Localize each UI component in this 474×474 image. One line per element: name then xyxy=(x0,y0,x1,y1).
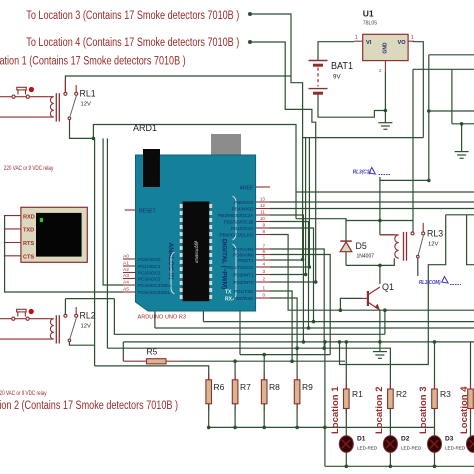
svg-text:CTS: CTS xyxy=(23,254,34,260)
svg-text:GND: GND xyxy=(383,42,389,54)
LED D1 xyxy=(339,436,378,453)
wire: Q1 emitter to ground xyxy=(379,310,381,352)
wire: RL2 row334 xyxy=(114,299,385,335)
svg-text:D3: D3 xyxy=(445,436,454,443)
wire: pin8 row310 xyxy=(270,235,474,311)
pushbutton 2 xyxy=(0,309,48,320)
ground: right side xyxy=(455,152,469,159)
wire: RL2 arm bottom xyxy=(69,342,94,346)
wire: h192 rail xyxy=(296,191,474,193)
wire: RL3 arm to COM xyxy=(417,258,419,276)
svg-text:78L05: 78L05 xyxy=(363,21,378,27)
svg-text:RL3: RL3 xyxy=(427,229,443,239)
svg-text:7: 7 xyxy=(262,244,265,249)
relay RL1 xyxy=(0,80,96,122)
wire: right rail C with ground xyxy=(451,69,453,124)
svg-text:1: 1 xyxy=(355,35,358,41)
svg-text:PB4/MISO: PB4/MISO xyxy=(232,207,254,212)
wire: Q1 base feed xyxy=(340,298,362,310)
svg-text:TXD: TXD xyxy=(23,228,34,234)
wire: A4 feeder xyxy=(103,138,123,285)
wire: RL3(C1) terminal drop xyxy=(379,177,381,235)
svg-text:PB1/OC1A: PB1/OC1A xyxy=(231,226,254,231)
svg-text:6: 6 xyxy=(262,249,265,254)
svg-text:Location 2: Location 2 xyxy=(374,386,385,434)
arduino right pin leads + numbers xyxy=(256,197,270,299)
LED D4 (partial) xyxy=(467,436,474,453)
wire: r9 row to R6 xyxy=(95,366,209,380)
wire: hanger v305 to PD3 xyxy=(305,138,307,275)
svg-text:A1: A1 xyxy=(123,261,129,267)
svg-text:ARD1: ARD1 xyxy=(133,123,157,133)
svg-text:PB0/ICP1/CLKO: PB0/ICP1/CLKO xyxy=(220,233,254,238)
ground: under U1 xyxy=(378,123,392,130)
wire: battery minus to gnd xyxy=(318,95,385,118)
wire: D5/relay top rail xyxy=(296,219,413,221)
wire: right rail A xyxy=(429,54,474,56)
arduino ARD1 xyxy=(125,123,270,321)
wire: location bus down xyxy=(324,342,326,466)
svg-text:0: 0 xyxy=(262,293,265,298)
svg-text:AREF: AREF xyxy=(240,186,253,192)
svg-text:RESET: RESET xyxy=(139,209,156,215)
wire: RL1 contact top to bus xyxy=(65,76,291,92)
label RL3(C1) xyxy=(353,168,391,176)
wire: D5 verticals xyxy=(345,219,347,241)
svg-text:Q1: Q1 xyxy=(382,282,394,292)
svg-text:RL1: RL1 xyxy=(80,89,96,99)
svg-text:RL3(C1): RL3(C1) xyxy=(353,170,371,176)
svg-text:To Location 2 (Contains 17 Smo: To Location 2 (Contains 17 Smoke detecto… xyxy=(0,400,178,412)
svg-text:RXD: RXD xyxy=(23,215,35,221)
svg-text:R8: R8 xyxy=(269,382,280,392)
svg-text:U1: U1 xyxy=(363,9,374,19)
svg-text:PC3/ADC3: PC3/ADC3 xyxy=(138,277,161,282)
wire: pin7 row348 to R2 xyxy=(270,249,324,348)
relay RL3 coil xyxy=(380,232,407,261)
wire: pin3 PD3 stub xyxy=(270,274,306,276)
AREF pin xyxy=(256,186,270,188)
wire: pin6 row354 xyxy=(270,255,330,355)
wire: RX to R9 xyxy=(270,298,297,380)
wire: pin9 row321 xyxy=(270,228,314,322)
wire: pin13 xyxy=(270,201,474,203)
svg-text:Location 3: Location 3 xyxy=(418,386,429,434)
wire: To Location 3 feed xyxy=(248,12,304,261)
svg-text:PB3/MOSI/OC2A: PB3/MOSI/OC2A xyxy=(218,213,254,218)
svg-text:12V: 12V xyxy=(428,242,438,248)
diode D5 xyxy=(340,241,374,260)
svg-text:R1: R1 xyxy=(352,389,363,399)
RESET pin xyxy=(125,209,136,211)
svg-text:12V: 12V xyxy=(81,102,91,108)
wire: R6-R9 bottom bus xyxy=(207,404,435,429)
wire: U1 VO down xyxy=(413,42,423,138)
svg-text:9V: 9V xyxy=(333,74,341,81)
wire: battery plus to U1 VI xyxy=(318,42,354,61)
svg-text:220 VAC or 9 VDC relay: 220 VAC or 9 VDC relay xyxy=(0,390,47,397)
LED D2 xyxy=(383,436,421,453)
wire: pin10 row328 xyxy=(270,222,309,329)
svg-text:PC1/ADC1: PC1/ADC1 xyxy=(138,264,161,269)
svg-text:TX: TX xyxy=(225,290,232,296)
location labels xyxy=(330,386,470,434)
svg-text:PC4/ADC4/SDA: PC4/ADC4/SDA xyxy=(138,283,172,288)
svg-text:A2: A2 xyxy=(123,267,129,273)
svg-text:RX: RX xyxy=(225,297,233,303)
svg-text:1: 1 xyxy=(411,35,414,41)
svg-text:1N4007: 1N4007 xyxy=(357,254,375,260)
wire: right step to R3 xyxy=(446,214,474,216)
svg-text:PD5/T1: PD5/T1 xyxy=(238,258,254,263)
resistors R1-R4 xyxy=(344,342,474,436)
wires: R to LED xyxy=(325,409,474,469)
svg-text:To Location 4 (Contains 17 Smo: To Location 4 (Contains 17 Smoke detecto… xyxy=(26,37,239,49)
arduino right pin labels PB xyxy=(218,200,254,301)
wire: R8 feeder xyxy=(263,355,265,380)
svg-text:A5: A5 xyxy=(123,287,129,293)
wire: RL2 contact top xyxy=(64,299,66,314)
svg-text:LED-RED: LED-RED xyxy=(445,446,466,451)
svg-text:9: 9 xyxy=(262,223,265,228)
svg-text:D1: D1 xyxy=(357,436,366,443)
svg-text:ARDUINO UNO R3: ARDUINO UNO R3 xyxy=(138,315,186,321)
svg-text:A3: A3 xyxy=(123,273,129,279)
svg-text:DIGITAL (~PWM): DIGITAL (~PWM) xyxy=(221,239,228,289)
wire: Q1 collector up xyxy=(379,265,381,284)
wire: pin2 PD2 stub xyxy=(270,281,316,283)
svg-text:2: 2 xyxy=(379,68,382,73)
svg-text:To Location 3 (Contains 17 Smo: To Location 3 (Contains 17 Smoke detecto… xyxy=(26,10,239,22)
svg-text:8: 8 xyxy=(262,229,265,234)
svg-text:PD3/INT1: PD3/INT1 xyxy=(233,273,254,278)
svg-text:PC5/ADC5/SCL: PC5/ADC5/SCL xyxy=(138,290,171,295)
wire: TX row361 xyxy=(270,291,292,361)
svg-text:220 VAC or 9 VDC relay: 220 VAC or 9 VDC relay xyxy=(4,165,54,172)
svg-text:R5: R5 xyxy=(147,347,158,357)
wire: 5V rail h137 xyxy=(303,137,424,139)
svg-text:PD4/T0/XCK: PD4/T0/XCK xyxy=(227,265,254,270)
wire: down rail to RL2 xyxy=(94,138,96,366)
wire: pin12 xyxy=(270,208,474,210)
wire: R1 feeder xyxy=(345,342,347,389)
wire: pin11 row342 xyxy=(270,215,303,342)
resistor R5 xyxy=(123,347,345,364)
wire: right rail B xyxy=(413,68,474,70)
svg-text:4: 4 xyxy=(262,262,265,267)
svg-text:PB5/SCK: PB5/SCK xyxy=(234,200,254,205)
svg-text:R2: R2 xyxy=(396,389,407,399)
wire: pin5 PD5 stub xyxy=(270,259,303,261)
svg-text:12V: 12V xyxy=(81,324,91,330)
svg-text:R6: R6 xyxy=(214,382,225,392)
svg-text:11: 11 xyxy=(260,210,265,215)
svg-text:R3: R3 xyxy=(440,389,451,399)
wire: To Location 4 feed xyxy=(248,40,318,284)
junction xyxy=(92,137,96,141)
svg-text:VI: VI xyxy=(366,40,372,46)
svg-text:To Location 1 (Contains 17 Smo: To Location 1 (Contains 17 Smoke detecto… xyxy=(0,56,186,68)
svg-text:PD0/RXD: PD0/RXD xyxy=(234,296,255,301)
svg-text:1 2 1: 1 2 1 xyxy=(193,240,197,247)
virtual terminal xyxy=(4,207,88,262)
label RL3(COM) xyxy=(419,277,461,287)
wire: hanger v309 to PD4 xyxy=(308,138,310,267)
wire: RL1 arm to junction xyxy=(70,120,95,138)
svg-text:1: 1 xyxy=(262,286,265,291)
arduino left pins A0-A5 xyxy=(123,254,136,293)
battery BAT1 xyxy=(309,61,354,94)
wire: A3 feeder xyxy=(106,138,108,348)
svg-text:PD7/AIN1: PD7/AIN1 xyxy=(233,247,254,252)
svg-text:A4: A4 xyxy=(123,280,129,286)
svg-text:D2: D2 xyxy=(401,436,410,443)
wire: terminal RXD loop xyxy=(5,216,123,292)
wire: R7 feeder xyxy=(234,361,236,380)
wire: v466 xyxy=(467,215,474,265)
pushbutton 1 xyxy=(0,87,48,98)
svg-text:2: 2 xyxy=(262,277,265,282)
svg-text:D5: D5 xyxy=(356,241,367,251)
wire: ARD1 top rail xyxy=(93,125,296,219)
svg-text:PC0/ADC0: PC0/ADC0 xyxy=(138,257,161,262)
svg-text:Location 1: Location 1 xyxy=(330,386,341,434)
svg-text:RL2: RL2 xyxy=(80,311,96,321)
ground: under Q1 xyxy=(373,352,387,359)
svg-text:RTS: RTS xyxy=(23,241,34,247)
svg-text:12: 12 xyxy=(260,203,266,208)
relay RL3 contact xyxy=(411,223,443,258)
svg-text:VO: VO xyxy=(398,40,407,46)
LED D3 xyxy=(428,436,466,453)
resistors R6-R9 xyxy=(206,380,313,404)
svg-text:R9: R9 xyxy=(302,382,313,392)
wire: relay coil top xyxy=(380,234,394,236)
svg-text:LED-RED: LED-RED xyxy=(401,446,422,451)
wire: coil bottom to junction xyxy=(346,258,394,265)
svg-text:PB2/SS/OC1B: PB2/SS/OC1B xyxy=(224,220,254,225)
svg-text:5: 5 xyxy=(262,255,265,260)
svg-text:3: 3 xyxy=(262,269,265,274)
wire: U1 GND down xyxy=(384,71,386,123)
svg-text:LED-RED: LED-RED xyxy=(357,446,378,451)
svg-text:BAT1: BAT1 xyxy=(331,61,353,72)
svg-text:PD1/TXD: PD1/TXD xyxy=(234,289,254,294)
svg-text:10: 10 xyxy=(260,216,266,221)
svg-text:13: 13 xyxy=(260,197,266,202)
transistor Q1 xyxy=(362,282,394,310)
chip ATMEGA328P xyxy=(183,202,210,302)
svg-text:RL3(COM): RL3(COM) xyxy=(419,280,441,286)
svg-text:PC2/ADC2: PC2/ADC2 xyxy=(138,271,161,276)
regulator U1 78L05 xyxy=(354,9,414,74)
svg-text:PD2/INT0: PD2/INT0 xyxy=(233,280,254,285)
svg-text:R7: R7 xyxy=(240,382,251,392)
relay RL2 xyxy=(0,307,96,344)
wire: pin4 PD4 stub xyxy=(270,266,309,268)
svg-text:PD6/AIN0: PD6/AIN0 xyxy=(233,253,254,258)
svg-text:A0: A0 xyxy=(123,254,129,260)
